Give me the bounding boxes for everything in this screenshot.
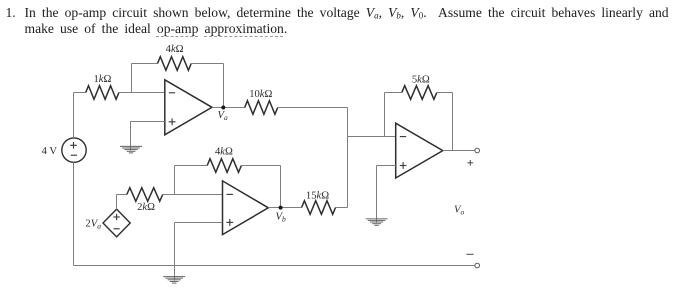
wire: [385, 92, 402, 94]
op-amp U2: [396, 123, 443, 178]
terminal +: [475, 148, 480, 153]
wire: [384, 93, 386, 137]
svg-text:10kΩ: 10kΩ: [249, 89, 272, 100]
voltage source V1 4V: [62, 138, 86, 162]
wire: [348, 136, 396, 138]
wire: [117, 194, 127, 196]
wire: [175, 222, 223, 224]
svg-text:5kΩ: 5kΩ: [412, 75, 430, 86]
wire: [191, 63, 223, 65]
svg-text:2kΩ: 2kΩ: [137, 202, 155, 213]
label -: [466, 253, 473, 255]
resistor 10k: [245, 101, 278, 115]
ground: [163, 266, 185, 284]
wire: [223, 64, 225, 108]
label Va: [218, 110, 228, 122]
label 4kohm: [215, 146, 233, 157]
wire: [347, 108, 349, 208]
wire: [336, 207, 348, 209]
resistor 1k: [86, 86, 119, 100]
wire: [278, 107, 348, 109]
wire: [280, 166, 282, 208]
wire: [241, 165, 280, 167]
node Vb: [279, 206, 283, 210]
dependent source 2Va: [103, 209, 130, 237]
label 5kohm: [412, 75, 430, 86]
wire: [74, 92, 86, 94]
terminal -: [475, 263, 480, 268]
wire bottom rail: [74, 265, 475, 267]
wire: [73, 162, 75, 265]
wire: [175, 165, 208, 167]
wire: [163, 194, 223, 196]
label Vo: [454, 205, 464, 217]
wire: [377, 165, 396, 167]
svg-text:2Va: 2Va: [85, 219, 101, 231]
svg-text:Vb: Vb: [276, 212, 286, 224]
wire: [443, 150, 475, 152]
label 2Va: [85, 219, 101, 231]
svg-text:15kΩ: 15kΩ: [306, 191, 329, 202]
resistor 2k: [127, 188, 163, 202]
svg-text:Va: Va: [218, 110, 228, 122]
wire: [131, 64, 133, 93]
label Vb: [276, 212, 286, 224]
resistor 15k: [302, 201, 336, 215]
svg-text:4kΩ: 4kΩ: [215, 146, 233, 157]
wire: [116, 195, 118, 210]
wire: [268, 207, 301, 209]
svg-text:4 V: 4 V: [42, 146, 58, 157]
wire: [174, 223, 176, 266]
svg-text:Vo: Vo: [454, 205, 464, 217]
label 15kohm: [306, 191, 329, 202]
label 1kohm: [93, 74, 111, 85]
label +: [468, 160, 474, 166]
label 2kohm: [137, 202, 155, 213]
wire: [73, 93, 75, 138]
svg-text:1kΩ: 1kΩ: [93, 74, 111, 85]
resistor 5k feedback U2: [402, 86, 437, 100]
wire: [452, 93, 454, 151]
wire: [437, 92, 453, 94]
op-amp U1: [165, 80, 212, 135]
wire: [131, 121, 165, 123]
label 10kohm: [249, 89, 272, 100]
wire: [174, 166, 176, 195]
label 4kohm: [166, 44, 184, 55]
wire: [119, 92, 165, 94]
ground: [120, 122, 142, 153]
ground: [366, 166, 388, 226]
label 4 V: [42, 146, 58, 157]
wire: [132, 63, 158, 65]
svg-text:4kΩ: 4kΩ: [166, 44, 184, 55]
node Va: [221, 106, 225, 110]
resistor 4k feedback U1: [158, 57, 192, 71]
resistor 4k feedback U3: [207, 159, 241, 173]
op-amp U3: [223, 181, 269, 235]
wire: [212, 107, 245, 109]
